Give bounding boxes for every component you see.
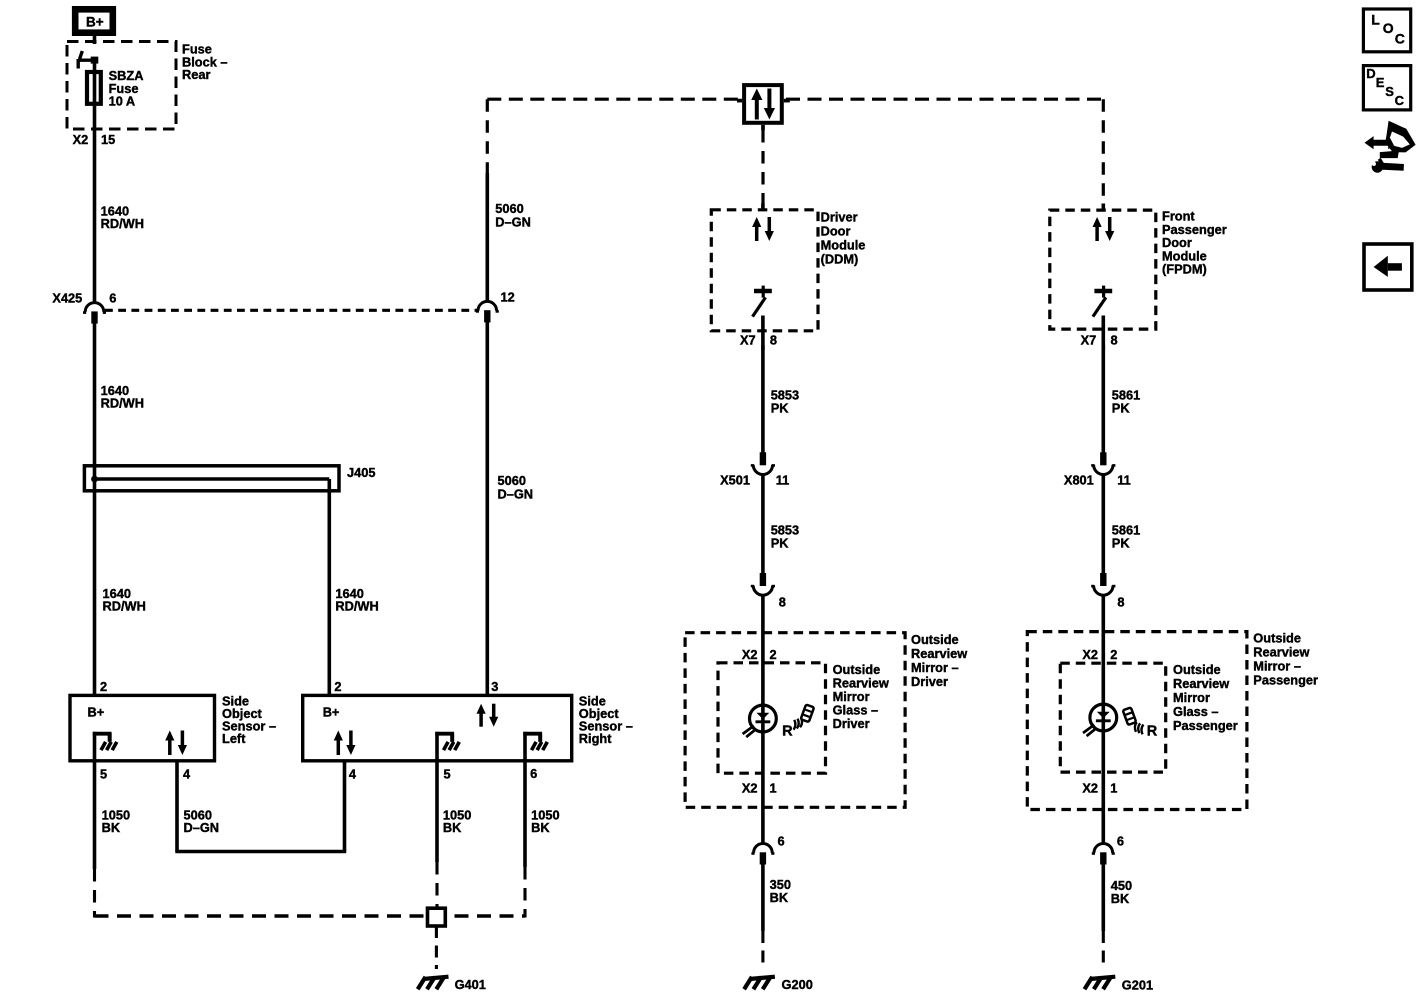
connector X7 pin 8 passenger labels <box>1081 333 1118 348</box>
dashed left pin5 to ground bus <box>93 869 96 918</box>
connector 12 <box>476 290 515 323</box>
svg-text:RD/WH: RD/WH <box>103 598 146 613</box>
side object sensor right box <box>303 695 572 760</box>
svg-text:B+: B+ <box>323 705 340 720</box>
svg-text:RD/WH: RD/WH <box>335 598 378 613</box>
label wire 5861 PK lower <box>1112 523 1140 551</box>
svg-text:Glass –: Glass – <box>1173 704 1219 719</box>
DDM window arrows <box>752 217 774 241</box>
wire connector 8 to mirror passenger <box>1102 595 1106 706</box>
label Front Passenger Door Module (FPDM) <box>1162 209 1227 277</box>
label B+ left sensor <box>88 705 105 720</box>
svg-text:4: 4 <box>349 767 357 782</box>
wire J405 to left sensor pin 2 <box>93 490 97 697</box>
svg-text:C: C <box>1395 31 1405 47</box>
wire connector 8 to mirror driver <box>761 595 765 706</box>
mirror glass passenger dashed box <box>1060 663 1165 772</box>
wire B+ to fuse block <box>93 36 97 44</box>
svg-text:PK: PK <box>771 536 790 551</box>
icon DESC box <box>1363 66 1410 110</box>
svg-text:8: 8 <box>1111 333 1118 348</box>
wire left sensor pin 5 (1050 BK) <box>93 761 97 869</box>
label pin 5 left sensor <box>100 767 107 782</box>
svg-text:11: 11 <box>776 472 790 487</box>
label wire 350 BK <box>770 877 791 905</box>
wire LED to X2 pin 1 driver <box>761 732 765 845</box>
connector X7 pin 8 driver labels <box>740 333 777 348</box>
svg-text:R: R <box>782 723 793 739</box>
svg-text:Driver: Driver <box>911 674 948 689</box>
dashed bus X425 to connector 12 <box>105 309 478 312</box>
label Outside Rearview Mirror Glass - Passenger <box>1173 662 1238 733</box>
svg-text:X7: X7 <box>1081 333 1097 348</box>
wire connector 12 to right sensor pin 3 <box>485 321 489 698</box>
icon LOC box <box>1363 9 1410 52</box>
svg-text:X2: X2 <box>1082 780 1098 795</box>
front passenger door module FPDM dashed box <box>1050 210 1156 329</box>
mirror passenger X2 pin 2 labels <box>1082 647 1117 662</box>
wire terminal to fuse <box>93 58 97 72</box>
svg-text:Outside: Outside <box>911 632 959 647</box>
svg-text:J405: J405 <box>347 465 375 480</box>
right sensor arrows pin 3 <box>477 704 499 727</box>
svg-text:6: 6 <box>530 766 537 781</box>
dashed pin6 to ground bus <box>523 867 526 918</box>
label B+ right sensor <box>323 705 340 720</box>
label wire 5853 PK upper <box>771 388 799 416</box>
connector X2 pin 15 labels <box>73 132 116 147</box>
splice pack J405 box <box>84 466 339 491</box>
outside rearview mirror driver dashed box <box>685 633 905 808</box>
connector 6 driver <box>751 834 784 865</box>
svg-text:C: C <box>1395 93 1405 108</box>
svg-text:BK: BK <box>1111 891 1130 906</box>
svg-text:8: 8 <box>770 333 777 348</box>
svg-text:11: 11 <box>1117 472 1131 487</box>
svg-text:X425: X425 <box>52 291 82 306</box>
wire fuse to X2 pin 15 <box>93 104 97 303</box>
svg-text:Mirror –: Mirror – <box>1253 658 1301 673</box>
connector X501 pin 11 <box>720 452 789 487</box>
label wire 1640 RD/WH left sensor <box>103 586 146 614</box>
svg-text:BK: BK <box>531 820 550 835</box>
connector 8 driver <box>751 573 786 609</box>
terminal symbol in fuse block <box>78 51 98 69</box>
DDM mirror select switch <box>753 286 772 317</box>
wire LED to X2 pin 1 passenger <box>1102 731 1106 845</box>
svg-text:Passenger: Passenger <box>1253 672 1318 687</box>
svg-text:G200: G200 <box>782 977 813 992</box>
mirror passenger X2 pin 1 labels <box>1082 780 1117 795</box>
svg-text:Outside: Outside <box>1253 630 1301 645</box>
svg-text:R: R <box>1147 724 1158 740</box>
label pin 4 left sensor <box>183 767 191 782</box>
svg-text:X2: X2 <box>742 780 758 795</box>
svg-text:PK: PK <box>1112 401 1131 416</box>
label pin 2 left sensor <box>100 679 107 694</box>
svg-text:Rearview: Rearview <box>1253 644 1309 659</box>
label wire 5060 D-GN lower <box>498 473 534 501</box>
motor box arrows <box>751 89 775 120</box>
svg-text:RD/WH: RD/WH <box>101 396 144 411</box>
svg-text:Rearview: Rearview <box>1173 676 1229 691</box>
svg-text:Left: Left <box>222 731 246 746</box>
label wire 1050 BK middle <box>443 807 471 835</box>
label SBZA Fuse 10 A <box>109 68 144 109</box>
svg-text:2: 2 <box>100 679 107 694</box>
label wire 1640 RD/WH mid <box>101 383 144 411</box>
wire X7 to X501 <box>761 345 765 453</box>
svg-text:Door: Door <box>821 224 851 239</box>
svg-text:1: 1 <box>1110 780 1117 795</box>
svg-text:8: 8 <box>779 594 786 609</box>
FPDM window arrows <box>1093 217 1115 241</box>
dashed ground bus <box>95 914 526 917</box>
label Side Object Sensor - Left <box>222 693 276 746</box>
connector 6 passenger <box>1092 834 1124 865</box>
svg-text:BK: BK <box>443 820 462 835</box>
svg-text:2: 2 <box>770 647 777 662</box>
dashed splice to G401 <box>435 926 438 969</box>
svg-text:X2: X2 <box>73 132 89 147</box>
label J405 <box>347 465 375 480</box>
dashed right pin5 to splice <box>435 862 438 908</box>
RF symbol driver <box>782 704 814 739</box>
label Side Object Sensor - Right <box>579 693 633 746</box>
svg-text:1: 1 <box>770 780 777 795</box>
svg-text:(FPDM): (FPDM) <box>1162 262 1207 277</box>
wire X501 to connector 8 driver <box>761 474 765 586</box>
svg-text:2: 2 <box>334 679 341 694</box>
mirror glass driver dashed box <box>718 663 826 773</box>
label pin 6 right sensor <box>530 766 537 781</box>
wire FPDM switch to X7 <box>1102 316 1106 351</box>
power feed B+ symbol <box>75 9 113 32</box>
svg-text:6: 6 <box>1117 834 1124 849</box>
label pin 5 right sensor <box>444 767 451 782</box>
svg-text:8: 8 <box>1117 594 1124 609</box>
wire DDM switch to X7 <box>761 316 765 351</box>
J405 internal bus and junction <box>91 467 329 492</box>
left sensor arrows pin 4 <box>165 731 187 756</box>
label wire 1640 RD/WH upper <box>101 204 144 232</box>
svg-text:Driver: Driver <box>833 716 870 731</box>
fuse block - rear dashed box <box>67 42 176 130</box>
label wire 5060 D-GN upper <box>495 201 531 229</box>
svg-text:PK: PK <box>1112 536 1131 551</box>
label Outside Rearview Mirror Glass - Driver <box>833 662 889 731</box>
label wire 5060 D-GN jumper <box>184 807 220 835</box>
dashed drop to G200 <box>761 931 764 969</box>
svg-text:12: 12 <box>501 290 515 305</box>
wire J405 to right sensor pin 2 <box>327 491 331 697</box>
svg-text:BK: BK <box>102 820 121 835</box>
svg-text:5: 5 <box>100 767 107 782</box>
svg-text:4: 4 <box>183 767 191 782</box>
wire X7 to X801 <box>1102 345 1106 453</box>
label wire 1050 BK right <box>531 807 559 835</box>
outside rearview mirror passenger dashed box <box>1027 632 1247 810</box>
label Outside Rearview Mirror - Passenger <box>1253 630 1318 687</box>
svg-text:5: 5 <box>444 767 451 782</box>
wire 350 BK driver <box>761 864 765 931</box>
svg-text:Module: Module <box>821 238 866 253</box>
connector X801 pin 11 <box>1064 452 1131 487</box>
svg-text:PK: PK <box>771 401 790 416</box>
FPDM mirror select switch <box>1093 286 1112 317</box>
svg-text:B+: B+ <box>88 705 105 720</box>
label Fuse Block - Rear <box>182 42 228 83</box>
mirror driver X2 pin 2 labels <box>742 647 777 662</box>
wire 5060 D-GN jumper pin4 to pin4 <box>175 761 346 852</box>
left sensor case ground pin 5 <box>93 732 117 761</box>
svg-text:D–GN: D–GN <box>495 214 531 229</box>
side object sensor left box <box>70 695 215 760</box>
svg-text:Rear: Rear <box>182 67 210 82</box>
wire 450 BK passenger <box>1102 864 1106 931</box>
driver door module DDM dashed box <box>711 210 818 331</box>
svg-text:L: L <box>1371 12 1380 28</box>
svg-text:G401: G401 <box>455 977 486 992</box>
svg-text:X2: X2 <box>1082 647 1098 662</box>
label Outside Rearview Mirror - Driver <box>911 632 967 689</box>
ground G200 <box>744 977 813 992</box>
svg-text:3: 3 <box>491 679 498 694</box>
svg-text:B+: B+ <box>86 14 104 29</box>
svg-text:X7: X7 <box>740 333 756 348</box>
mirror motor symbol box <box>737 85 790 130</box>
wire X801 to connector 8 passenger <box>1102 474 1106 586</box>
label Driver Door Module (DDM) <box>821 210 866 267</box>
dashed wire top bus corner to 5060 <box>486 99 489 174</box>
right sensor case ground pin 5 <box>435 732 459 761</box>
wire 5060 D-GN to connector 12 <box>485 173 489 301</box>
ground G401 <box>418 977 486 992</box>
svg-text:RD/WH: RD/WH <box>101 216 144 231</box>
icon back arrow box <box>1364 244 1412 290</box>
dashed drop motor to DDM <box>761 130 764 211</box>
label pin 2 right sensor <box>334 679 341 694</box>
svg-text:S: S <box>1385 84 1394 99</box>
label wire 450 BK <box>1111 878 1132 906</box>
svg-text:Mirror: Mirror <box>1173 690 1210 705</box>
dashed drop to FPDM <box>1102 99 1105 210</box>
label wire 1640 RD/WH right sensor <box>335 586 378 614</box>
svg-text:2: 2 <box>1110 647 1117 662</box>
svg-text:6: 6 <box>109 291 116 306</box>
dashed bus right segment <box>786 98 1103 101</box>
svg-text:15: 15 <box>101 132 115 147</box>
svg-text:X801: X801 <box>1064 472 1094 487</box>
RF symbol passenger <box>1123 707 1158 739</box>
svg-text:G201: G201 <box>1122 978 1153 993</box>
right sensor arrows pin 4 <box>334 731 356 756</box>
svg-text:Outside: Outside <box>1173 662 1221 677</box>
ground G201 <box>1085 977 1154 993</box>
connector 8 passenger <box>1091 573 1124 609</box>
svg-text:10 A: 10 A <box>109 94 136 109</box>
wire X425 to J405 <box>93 323 97 468</box>
svg-text:Driver: Driver <box>821 210 858 225</box>
svg-text:Mirror –: Mirror – <box>911 660 959 675</box>
splice square junction <box>428 908 446 926</box>
mirror driver X2 pin 1 labels <box>742 780 777 795</box>
right sensor case ground pin 6 <box>523 732 547 761</box>
fuse SBZA 10A <box>87 72 101 104</box>
svg-text:Passenger: Passenger <box>1173 718 1238 733</box>
svg-text:O: O <box>1383 20 1394 36</box>
icon schematic navigation <box>1365 121 1416 173</box>
dashed bus left segment <box>487 98 740 101</box>
svg-text:BK: BK <box>770 890 789 905</box>
svg-text:Rearview: Rearview <box>911 646 967 661</box>
svg-text:X501: X501 <box>720 472 750 487</box>
svg-text:(DDM): (DDM) <box>821 252 859 267</box>
svg-text:X2: X2 <box>742 647 758 662</box>
label wire 1050 BK left <box>102 807 130 835</box>
svg-text:Right: Right <box>579 731 612 746</box>
svg-text:6: 6 <box>778 834 785 849</box>
svg-text:D–GN: D–GN <box>498 486 534 501</box>
svg-text:E: E <box>1376 75 1385 90</box>
wire right sensor pin 5 (1050 BK) <box>435 761 439 862</box>
label pin 3 right sensor <box>491 679 498 694</box>
dashed drop to G201 <box>1102 931 1105 969</box>
wire right sensor pin 6 (1050 BK) <box>523 761 527 867</box>
label wire 5861 PK upper <box>1112 388 1140 416</box>
svg-text:D: D <box>1366 66 1375 81</box>
svg-text:D–GN: D–GN <box>184 820 220 835</box>
heated glass LED passenger <box>1083 704 1117 737</box>
connector X425 pin 6 <box>52 291 116 324</box>
label wire 5853 PK lower <box>771 523 799 551</box>
heated glass LED driver <box>743 705 777 738</box>
label pin 4 right sensor <box>349 767 357 782</box>
